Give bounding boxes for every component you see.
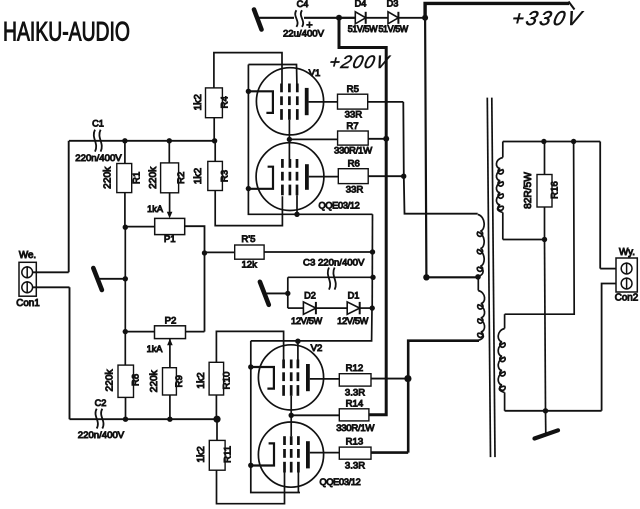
tube V1 top grid g3 <box>296 84 299 93</box>
wire R3 to V1 lower g1 <box>215 191 282 226</box>
node V2 bottom cathode <box>248 463 253 468</box>
tube V2 top envelope <box>258 345 323 410</box>
tube V1 top envelope <box>256 68 323 135</box>
label +330V <box>509 8 585 30</box>
svg-text:R10: R10 <box>221 372 232 390</box>
wire V1 g3 top link <box>248 65 297 84</box>
resistor R16 <box>537 175 552 208</box>
node R16 bottom <box>542 237 547 242</box>
tube V2 bottom grid g2 <box>290 436 293 445</box>
resistor R5 <box>338 94 368 109</box>
resistor R1 <box>117 164 132 193</box>
node center tap <box>475 274 481 280</box>
tube V1 top anode <box>305 88 309 115</box>
svg-text:1k2: 1k2 <box>193 167 204 184</box>
tube V1 bottom grid g1 <box>281 159 284 168</box>
capacitor C4 <box>295 10 297 27</box>
tube V2 bottom anode <box>306 441 310 468</box>
wire R16 node down <box>545 240 546 411</box>
svg-text:D1: D1 <box>348 291 360 301</box>
wire C4 to node <box>304 17 355 19</box>
node R9 bottom <box>167 417 172 422</box>
wire sec top bottom lead <box>503 239 545 241</box>
ground (C4 input) <box>254 10 262 30</box>
svg-text:R7: R7 <box>346 121 358 132</box>
svg-text:82R/5W: 82R/5W <box>523 172 534 209</box>
node R'5/bias <box>370 249 375 254</box>
svg-text:330R/1W: 330R/1W <box>334 146 373 157</box>
svg-text:1kA: 1kA <box>147 204 164 214</box>
svg-text:1k2: 1k2 <box>196 372 207 389</box>
node (C4/D4/+200V) <box>336 15 342 21</box>
node R6/anode line <box>401 174 406 179</box>
node R16 top <box>541 139 546 144</box>
node R8 bottom <box>123 417 128 422</box>
tube V2 top anode <box>306 364 310 391</box>
svg-text:R4: R4 <box>219 96 230 109</box>
svg-text:R11: R11 <box>222 446 233 463</box>
resistor R13 <box>339 447 371 459</box>
tube V1 bottom envelope <box>256 143 324 211</box>
wire R1 line down <box>124 227 126 365</box>
tube V1 bottom anode <box>305 164 309 190</box>
transformer primary top winding <box>477 215 484 272</box>
wire V2 anodes to transformer <box>408 341 479 453</box>
svg-text:51V/5W: 51V/5W <box>348 24 378 34</box>
svg-text:Con2: Con2 <box>615 293 638 304</box>
wire +330V to center tap <box>425 18 478 278</box>
svg-text:R1: R1 <box>131 172 142 184</box>
node R2 top <box>167 138 172 143</box>
node R3/R4 <box>212 138 217 143</box>
svg-text:QQE03/12: QQE03/12 <box>318 200 359 210</box>
transformer core <box>487 98 490 458</box>
resistor R6 <box>338 169 368 184</box>
diode D2 <box>288 307 304 309</box>
wire C1 down to Con1 <box>68 141 70 272</box>
node V2 top cathode <box>248 364 253 369</box>
svg-text:D3: D3 <box>387 0 399 9</box>
transformer secondary bottom winding <box>504 314 506 328</box>
transformer secondary top winding <box>502 142 504 158</box>
svg-text:51V/5W: 51V/5W <box>378 24 408 34</box>
svg-text:1k2: 1k2 <box>193 94 204 111</box>
svg-text:220k: 220k <box>105 369 116 392</box>
resistor R12 <box>339 374 371 386</box>
wire input ground <box>98 278 126 280</box>
svg-text:220n/400V: 220n/400V <box>78 430 125 441</box>
svg-text:C1: C1 <box>92 118 104 128</box>
svg-text:R8: R8 <box>131 374 142 386</box>
tube V2 top grid g3 <box>297 360 300 369</box>
tube V1 bottom grid g3 <box>296 159 299 168</box>
svg-text:330R/1W: 330R/1W <box>336 423 375 434</box>
svg-text:1kA: 1kA <box>147 344 164 354</box>
transformer primary bottom winding <box>477 277 479 290</box>
svg-text:D4: D4 <box>355 0 367 9</box>
tube V2 bottom grid g3 <box>297 436 300 445</box>
wire output hot down <box>599 142 601 269</box>
svg-text:+200V: +200V <box>327 51 392 72</box>
svg-text:R2: R2 <box>176 172 187 184</box>
svg-text:R'5: R'5 <box>241 234 255 245</box>
svg-text:V2: V2 <box>311 343 323 354</box>
wire Con1 top <box>33 271 69 273</box>
svg-text:V1: V1 <box>309 68 321 79</box>
node C3 right <box>370 275 375 280</box>
wire bias node vertical <box>371 214 373 308</box>
wire +200V rail (thick) <box>339 18 386 415</box>
resistor R4 <box>206 88 223 118</box>
wire sec windings link <box>505 142 575 315</box>
svg-text:R6: R6 <box>348 158 360 169</box>
svg-text:1k2: 1k2 <box>196 446 207 463</box>
svg-text:D2: D2 <box>304 291 316 301</box>
svg-text:220k: 220k <box>149 369 160 392</box>
node V1 g2/R7 <box>287 137 292 142</box>
node V2 bottom g3 <box>297 473 299 493</box>
node ground/R1 line <box>123 276 128 281</box>
wire secondary top row <box>503 141 600 143</box>
wire output ground row <box>505 410 602 412</box>
svg-text:12k: 12k <box>241 260 257 271</box>
node P2 left <box>123 329 128 334</box>
node V1 bottom cathode <box>246 186 251 191</box>
resistor R10 <box>209 362 224 395</box>
resistor R14 <box>291 414 339 416</box>
wire R11 to V2 lower g1 <box>217 470 285 504</box>
ground (output) <box>535 430 559 438</box>
wire C2 row <box>70 418 218 420</box>
wire P2 wiper to R9 <box>169 339 171 368</box>
wire to output ground <box>545 411 547 434</box>
wire P2 left lead <box>125 331 154 333</box>
node C3 left/ground <box>285 291 290 296</box>
tube V1 bottom grid g2 <box>289 159 292 168</box>
node output ground <box>543 408 548 413</box>
node D1 right <box>370 305 375 310</box>
svg-text:P2: P2 <box>165 316 177 327</box>
svg-text:12V/5W: 12V/5W <box>291 316 323 326</box>
tube V1 top grid g2 <box>288 84 291 93</box>
svg-text:22u/400V: 22u/400V <box>283 29 325 40</box>
node R12/primary <box>404 375 411 382</box>
node center tap left <box>423 274 429 280</box>
svg-text:R5: R5 <box>347 84 359 95</box>
svg-text:+330V: +330V <box>509 8 585 30</box>
node V2 g2/R14 <box>289 413 294 418</box>
wire Con2 bottom <box>602 284 616 411</box>
resistor R7 <box>289 138 337 140</box>
svg-text:C3 220n/400V: C3 220n/400V <box>303 257 365 268</box>
wire P1 right <box>185 226 205 331</box>
svg-text:QQE03/12: QQE03/12 <box>319 477 360 487</box>
svg-text:33R: 33R <box>346 184 364 195</box>
wire bias ground <box>264 292 288 294</box>
svg-text:R9: R9 <box>174 375 185 387</box>
tube V2 bottom grid g1 <box>283 436 286 445</box>
node V1 top cathode <box>246 89 251 94</box>
tube V2 top grid g2 <box>290 360 293 369</box>
wire C1 row <box>69 140 215 142</box>
resistor R'5 <box>205 251 235 253</box>
tube V1 top grid g1 <box>280 84 283 93</box>
svg-text:R12: R12 <box>346 363 364 374</box>
wire +330V rail <box>425 3 569 17</box>
svg-text:R16: R16 <box>550 181 561 199</box>
resistor R9 <box>163 368 177 395</box>
wire D3 to node <box>398 17 425 19</box>
ground (input) <box>93 268 102 290</box>
svg-text:C2: C2 <box>95 398 107 408</box>
node R7 to +200V rail <box>383 136 389 142</box>
svg-text:220n/400V: 220n/400V <box>75 153 122 164</box>
svg-text:R3: R3 <box>219 170 230 182</box>
wire D4 to D3 <box>366 17 388 19</box>
wire D1 to bias node <box>360 307 373 309</box>
resistor R11 <box>209 440 225 470</box>
wire P2 right lead <box>186 331 205 333</box>
svg-text:3.3R: 3.3R <box>345 387 365 398</box>
wire Con1 bottom down to C2 <box>69 287 71 419</box>
wire Con2 top <box>600 268 616 270</box>
svg-text:R13: R13 <box>346 436 364 447</box>
node (D3 output) <box>422 15 428 21</box>
svg-text:220k: 220k <box>148 166 159 189</box>
svg-text:12V/5W: 12V/5W <box>337 316 369 326</box>
svg-text:HAIKU-AUDIO: HAIKU-AUDIO <box>3 17 130 47</box>
diode D4 <box>339 17 355 19</box>
capacitor C2 <box>95 409 97 429</box>
wire bias to V2 cathode rail <box>251 308 372 341</box>
capacitor C1 <box>94 130 96 152</box>
node R10/R11/C2 <box>213 416 220 423</box>
svg-text:Con1: Con1 <box>16 298 39 309</box>
svg-text:220k: 220k <box>102 166 113 189</box>
resistor R8 <box>118 365 134 397</box>
tube V2 top cathode <box>249 367 274 389</box>
diode D1 <box>347 302 360 314</box>
wire V2 cathode rail <box>251 341 300 493</box>
node R1 top <box>122 138 127 143</box>
wire P1 left <box>125 226 154 228</box>
diode D3 <box>388 12 398 24</box>
svg-text:We.: We. <box>19 250 36 261</box>
node V1 bottom g3 <box>296 195 298 214</box>
tube V2 top grid g1 <box>282 360 285 369</box>
node R1/P1 <box>123 225 128 230</box>
svg-text:R14: R14 <box>346 398 364 409</box>
wire D2 to D1 <box>316 307 347 309</box>
wire V1 anodes to transformer <box>403 102 477 214</box>
svg-text:P1: P1 <box>164 234 176 245</box>
ground (bias) <box>260 282 269 305</box>
svg-text:3.3R: 3.3R <box>345 461 365 472</box>
svg-text:C4: C4 <box>297 0 309 9</box>
tube V2 bottom cathode <box>249 443 274 465</box>
node P1/R'5/P2 <box>202 250 207 255</box>
wire V1 g1 feed from R4 <box>214 53 282 88</box>
tube V1 bottom cathode <box>248 167 273 189</box>
wire Con1 bottom <box>33 286 70 288</box>
tube V2 bottom envelope <box>258 422 323 487</box>
node sec link top <box>571 139 576 144</box>
svg-text:33R: 33R <box>345 109 363 120</box>
wire R10 to V2 g1 <box>216 331 283 362</box>
node V2 top g3 <box>297 341 299 360</box>
wire V1 cathode rail <box>248 65 372 215</box>
tube V1 top cathode <box>248 91 273 113</box>
label +200V <box>327 51 392 72</box>
wire ground to C4 <box>258 17 295 19</box>
resistor R2 <box>161 163 179 193</box>
resistor R3 <box>208 161 223 190</box>
wire V1 g2 link <box>288 120 290 159</box>
svg-text:Wy.: Wy. <box>619 247 635 258</box>
wire V2 g2 link <box>290 396 292 436</box>
